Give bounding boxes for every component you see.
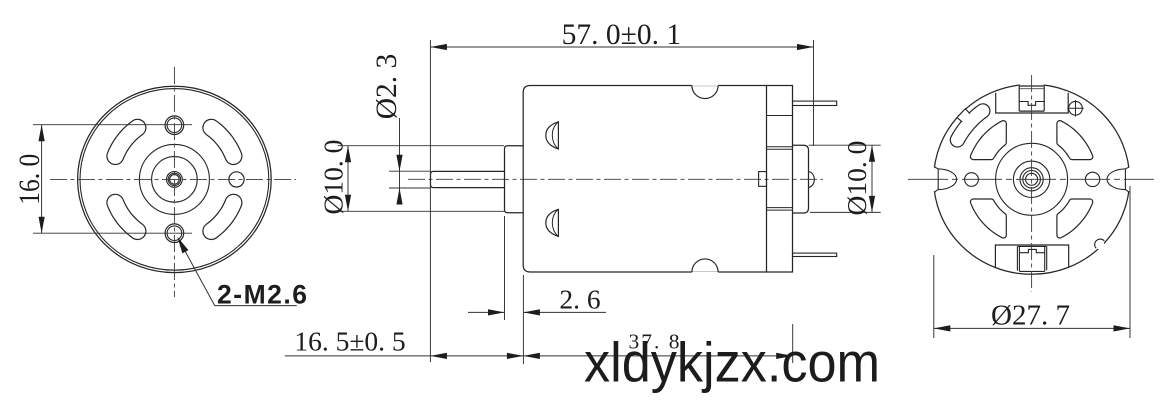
rear big slot upper-left: [973, 124, 1003, 157]
rear top bracket inner box: [1019, 86, 1044, 111]
ext line flange left vertical: [504, 216, 506, 320]
rear bearing rings: [1020, 168, 1043, 191]
svg-text:57. 0±0. 1: 57. 0±0. 1: [562, 19, 681, 51]
dim 57.0 arrow left: [430, 44, 447, 50]
ext line rear left: [933, 255, 935, 338]
dim 27.7 arrow right: [1114, 325, 1131, 331]
rear top bracket chord line: [1019, 88, 1044, 90]
mounting hole bottom: [165, 224, 184, 243]
front vent slot lower-left: [115, 203, 137, 231]
dim 37.8 arrow right: [776, 353, 793, 359]
rear lower-right small notch: [1094, 239, 1105, 250]
rear bearing boss: [793, 145, 809, 213]
mounting hole top: [165, 116, 184, 135]
front flange: [505, 146, 524, 213]
can top notch: [692, 84, 718, 86]
side centerline: [408, 178, 823, 180]
brush tab: [759, 172, 767, 187]
ext line body left vertical: [522, 275, 524, 364]
rear top bracket: [996, 93, 1068, 113]
front bearing housing circle: [139, 144, 209, 214]
mounting hole top axis line: [33, 124, 192, 126]
rear big slot upper-right: [1060, 124, 1090, 157]
dim 10.0 right arrow up: [869, 145, 875, 162]
svg-text:Ø27. 7: Ø27. 7: [991, 299, 1070, 331]
dim 16.0 line: [41, 125, 43, 234]
front shaft ring middle: [168, 173, 180, 185]
dim 57.0 line: [430, 46, 813, 48]
dim 16.5 arrow right: [507, 353, 524, 359]
side vent lower: [546, 209, 559, 236]
dim 57.0 arrow right: [797, 44, 814, 50]
screw head: [1069, 101, 1083, 115]
end cap line 1: [767, 115, 793, 117]
dim 10.0 left arrow down: [345, 195, 351, 212]
front small hole right: [229, 172, 244, 187]
dim 10.0 left arrow up: [345, 146, 351, 163]
rear bottom bracket tab: [1019, 249, 1044, 252]
rear center circle big: [996, 143, 1068, 215]
end cap line 4: [767, 207, 793, 209]
dim 2.6 arrow left: [523, 309, 540, 315]
ext line shaft tip vertical: [429, 40, 431, 362]
ext lines flange dia left: [338, 145, 504, 147]
dim 16.0 arrow up: [39, 125, 45, 142]
dim 2.6 line right: [523, 311, 606, 313]
dim 2.6 arrow right: [488, 309, 505, 315]
shaft end bump: [809, 172, 815, 188]
dim 2.6 line left: [468, 311, 505, 313]
side vent upper: [546, 122, 559, 149]
front shaft ring outer: [167, 172, 183, 188]
rear rim slot upper-left: [957, 111, 982, 140]
dim 27.7 line: [934, 327, 1130, 329]
dim 10.0 right arrow down: [869, 196, 875, 213]
front shaft circle: [170, 175, 180, 185]
motor can: [523, 86, 767, 273]
front bearing boss circle: [152, 157, 198, 203]
rear vertical centerline: [1031, 75, 1033, 292]
front vent slot upper-right: [211, 128, 233, 156]
svg-text:xldykjzx.com: xldykjzx.com: [584, 331, 880, 394]
can bottom notch: [692, 272, 718, 274]
rear horizontal centerline: [908, 178, 1154, 180]
svg-text:16. 0: 16. 0: [13, 154, 46, 205]
ext line motor rear vertical: [813, 40, 815, 146]
end cap: [767, 86, 793, 273]
rear small hole right: [1085, 172, 1099, 186]
front inner rim: [80, 89, 269, 271]
ext line cap right vertical: [792, 324, 794, 363]
rim erase over bracket box: [1020, 83, 1044, 86]
end cap line 2: [767, 146, 793, 148]
dim 2.3 arrow down: [396, 155, 402, 172]
end cap line 3: [767, 148, 793, 150]
front outer rim: [78, 86, 272, 272]
rear center circle mid: [1013, 161, 1049, 197]
terminal top: [793, 101, 837, 105]
rear right rim notch: [1123, 167, 1134, 192]
rear top bracket tab: [1019, 102, 1044, 106]
ext lines shaft dia: [389, 170, 430, 172]
label 2-M2.6 leader: [181, 243, 297, 305]
svg-text:Ø10. 0: Ø10. 0: [318, 140, 349, 215]
terminal bottom: [793, 253, 837, 256]
dim 10.0 left line: [347, 146, 349, 212]
rear bottom bracket: [995, 245, 1068, 267]
ext line rear right: [1129, 186, 1131, 338]
dim 2.3 arrow up: [396, 188, 402, 205]
front vent slot lower-right: [211, 203, 233, 231]
svg-text:Ø10. 0: Ø10. 0: [841, 141, 872, 216]
ext lines boss dia right: [809, 144, 881, 146]
svg-text:2-M2.6: 2-M2.6: [217, 280, 308, 310]
rear outer rim: [934, 84, 1130, 274]
rear bottom bracket inner box fill: [1018, 247, 1046, 271]
front view vertical centerline: [173, 67, 175, 297]
mounting hole bottom axis line: [33, 232, 192, 234]
dim 16.0 arrow down: [39, 217, 45, 234]
rear rim slot notch: [957, 109, 970, 122]
dim 16.5 arrow left: [430, 353, 447, 359]
svg-text:2. 6: 2. 6: [559, 283, 600, 314]
rear small hole left: [965, 173, 979, 187]
dim bottom line: [285, 355, 793, 357]
dim 10.0 right line: [871, 145, 873, 212]
dim 27.7 arrow left: [934, 325, 951, 331]
dim 2.3 line: [399, 118, 401, 205]
svg-text:Ø2. 3: Ø2. 3: [371, 54, 403, 120]
front vent slot upper-left: [115, 128, 137, 156]
rear big slot lower-right: [1060, 202, 1090, 235]
end cap line 5: [767, 209, 793, 211]
dim 37.8 arrow left: [523, 353, 540, 359]
front view horizontal centerline: [50, 178, 296, 180]
rear big slot lower-left: [973, 202, 1003, 235]
rear left rim notch: [930, 167, 941, 192]
label 2-M2.6 arrowhead: [177, 237, 188, 254]
rear bottom bracket inner box: [1017, 246, 1046, 271]
svg-text:16. 5±0. 5: 16. 5±0. 5: [294, 326, 405, 357]
shaft: [431, 171, 505, 187]
